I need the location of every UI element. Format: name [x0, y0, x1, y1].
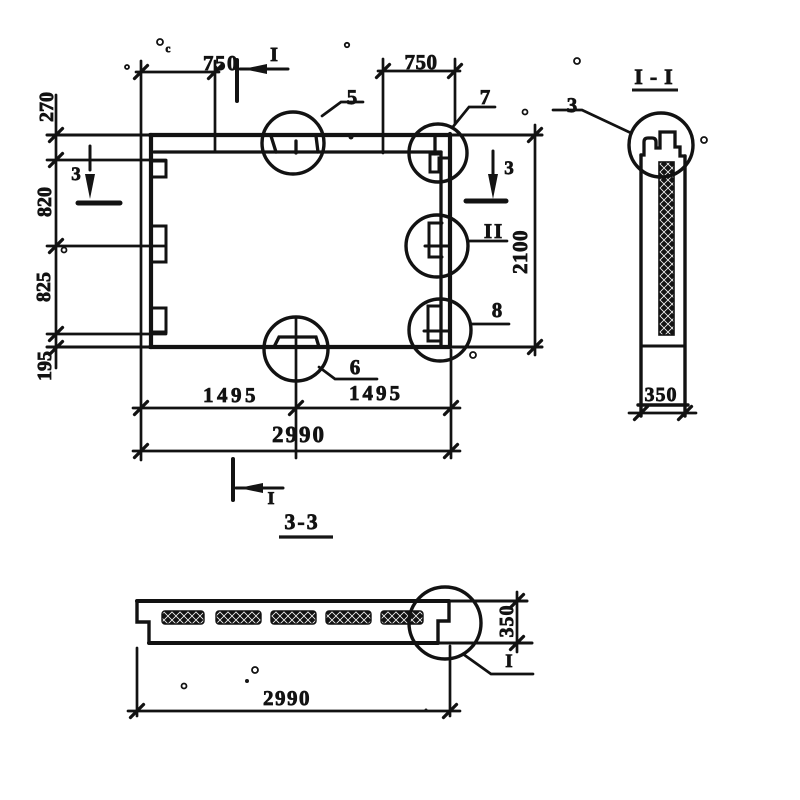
tick 750R b [449, 65, 462, 78]
extension line y246 [47, 245, 166, 248]
tick 1495 b [445, 402, 458, 415]
tick 750L b [209, 66, 222, 79]
svg-text:350: 350 [496, 605, 518, 638]
leader to label 5 [322, 102, 363, 116]
extension x455 [454, 59, 457, 124]
svg-text:I-I: I-I [634, 64, 679, 89]
3-3 extension left [136, 648, 139, 716]
3-3 callout circle right end [409, 587, 481, 659]
tick 2990 b [445, 445, 458, 458]
leader to I-I label 3 [553, 110, 631, 133]
svg-text:c: c [166, 43, 171, 55]
svg-text:2100: 2100 [508, 230, 532, 274]
left chain tick y246 [50, 240, 63, 253]
leader to label II [468, 240, 507, 243]
left chain tick y160 [50, 154, 63, 167]
svg-text:3: 3 [504, 158, 514, 179]
callout circle II [406, 215, 468, 277]
svg-text:1495: 1495 [203, 383, 259, 407]
left chain tick y334 [50, 328, 63, 341]
3-3 dim 350 line [516, 592, 519, 652]
section marker 3 right arrow [492, 151, 495, 175]
dim 750 right line [378, 70, 460, 73]
dim 2100 line [534, 125, 537, 355]
svg-text:6: 6 [350, 355, 361, 379]
svg-text:2990: 2990 [272, 422, 326, 447]
svg-text:8: 8 [492, 298, 503, 322]
I-I body right edge [683, 156, 686, 416]
3-3 void 1 [162, 611, 204, 624]
extension x141 [140, 61, 143, 460]
svg-text:820: 820 [34, 187, 56, 217]
panel top edge [47, 134, 542, 137]
callout circle 6 [264, 317, 328, 381]
extension line y334 [47, 333, 166, 336]
leader to label 8 [471, 323, 509, 326]
svg-text:270: 270 [36, 92, 58, 122]
svg-text:750: 750 [203, 51, 239, 75]
leader to 3-3 label I [463, 654, 533, 674]
left edge key notch 2 [151, 226, 166, 262]
dim 2990 line [133, 450, 460, 453]
section marker 3 left arrow [89, 146, 92, 170]
section marker I top bar [235, 60, 239, 101]
section marker I top arrow [240, 68, 288, 71]
left chain tick y135 [50, 129, 63, 142]
extension x215 [214, 61, 217, 152]
right edge key notch in circle 8 [428, 306, 441, 341]
extension x451 [450, 350, 453, 458]
left dim chain line [55, 95, 58, 368]
panel right outer edge [448, 134, 452, 347]
I-I title underline [632, 89, 678, 92]
scan speck circles [157, 39, 163, 45]
svg-text:1495: 1495 [349, 381, 403, 405]
panel left edge [149, 135, 153, 347]
svg-text:750: 750 [405, 50, 438, 74]
panel right inner edge [439, 152, 442, 347]
svg-text:350: 350 [645, 384, 678, 406]
panel bottom edge [47, 346, 542, 349]
3-3 void 2 [216, 611, 261, 624]
svg-text:5: 5 [347, 85, 358, 109]
tick I-I 350 b [679, 407, 692, 420]
svg-text:3-3: 3-3 [284, 509, 319, 534]
3-3 extension right [449, 646, 452, 716]
bottom edge groove detail [274, 337, 319, 347]
left edge key notch 1 [151, 161, 166, 177]
3-3 void 3 [271, 611, 316, 624]
svg-text:195: 195 [34, 351, 56, 381]
tick 3-3 350 b [511, 637, 524, 650]
I-I callout circle 3 [629, 113, 693, 177]
I-I top profile [641, 132, 685, 156]
dim 1495 line [133, 407, 460, 410]
svg-text:2990: 2990 [263, 686, 311, 710]
tick 2100 top [529, 129, 542, 142]
tick 2990 a [135, 445, 148, 458]
I-I body left edge [639, 155, 642, 416]
svg-text:I: I [267, 488, 274, 508]
3-3 title underline [279, 535, 333, 538]
tick 3-3 2990 a [131, 705, 144, 718]
tick 1495 a [135, 402, 148, 415]
right edge key notch in circle 7 [430, 154, 448, 172]
tick 3-3 2990 b [444, 705, 457, 718]
section marker I bottom arrow [236, 487, 283, 490]
leader to label 7 [452, 107, 495, 128]
svg-text:3: 3 [567, 93, 578, 117]
svg-text:II: II [484, 219, 504, 243]
top edge groove detail [271, 136, 318, 153]
3-3 void 4 [326, 611, 371, 624]
tick I-I 350 a [635, 407, 648, 420]
I-I body bottom [638, 403, 688, 406]
dim 750 left line [136, 71, 219, 74]
leader to label 6 [319, 367, 377, 379]
right edge key notch in circle II [429, 223, 442, 257]
extension line y160 [47, 159, 166, 162]
tick 2100 bottom [529, 341, 542, 354]
tick 1495 mid [290, 402, 303, 415]
I-I inner line [641, 345, 685, 348]
3-3 dim 2990 line [128, 710, 460, 713]
3-3 left end step [137, 601, 149, 643]
left edge key notch 3 [151, 308, 166, 332]
I-I hatched core strip [659, 162, 674, 335]
tick 3-3 350 a [511, 595, 524, 608]
extension x296 center [295, 318, 298, 458]
section marker 3 left bar [78, 201, 120, 206]
3-3 bottom edge [149, 642, 532, 645]
svg-text:825: 825 [33, 272, 55, 302]
svg-text:3: 3 [71, 164, 81, 185]
tick 750L a [135, 66, 148, 79]
tick 750R a [377, 65, 390, 78]
svg-text:I: I [270, 44, 278, 66]
3-3 top edge [137, 600, 527, 603]
svg-text:I: I [505, 651, 512, 672]
3-3 right end step [438, 601, 449, 643]
panel inner top line [154, 150, 441, 153]
extension x383 [382, 59, 385, 153]
section marker 3 right bar [466, 199, 506, 204]
svg-text:7: 7 [480, 85, 491, 109]
callout circle 5 [262, 112, 324, 174]
section marker I bottom bar [231, 459, 235, 500]
callout circle 7 [409, 124, 467, 182]
I-I dim 350 line [629, 412, 696, 415]
3-3 void 5 [381, 611, 423, 624]
left chain tick y348 [50, 342, 63, 355]
callout circle 8 [409, 299, 471, 361]
